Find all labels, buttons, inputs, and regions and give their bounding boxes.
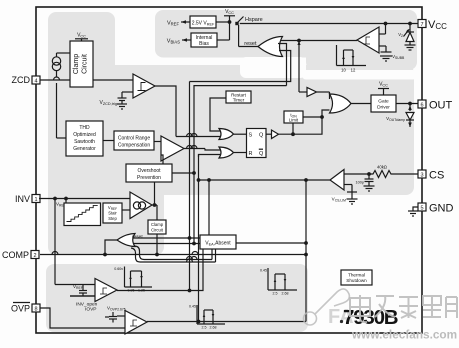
wire ZCD comparator output bbox=[155, 86, 176, 137]
pre-driver buffer bbox=[307, 88, 330, 100]
wire OVP comparator output bbox=[147, 320, 306, 323]
wire COMP pin row bbox=[40, 252, 306, 255]
wire INV to error amp bbox=[39, 197, 130, 200]
watermark magnifier circle bbox=[304, 289, 350, 325]
INV open comparator bbox=[55, 279, 117, 302]
svg-text:Thermal: Thermal bbox=[348, 273, 365, 278]
wire fault bus A to v4 bbox=[134, 246, 212, 260]
svg-text:IOVP: IOVP bbox=[85, 307, 96, 313]
wire reset gate input A bbox=[278, 44, 287, 86]
shaded region top-left strip bbox=[48, 12, 115, 82]
capacitor on CS filter bbox=[356, 174, 375, 191]
UVLO comparator bbox=[357, 27, 379, 53]
svg-text:4: 4 bbox=[34, 79, 37, 85]
restart timer block bbox=[226, 91, 251, 103]
OR gate 2 (reset) bbox=[219, 147, 247, 158]
wire ZCD to comparator bbox=[40, 79, 70, 81]
ton limit block bbox=[284, 111, 323, 123]
svg-text:VREF: VREF bbox=[167, 21, 179, 27]
wire Vcc to UVLO input bbox=[379, 24, 386, 35]
svg-text:Limit: Limit bbox=[289, 118, 299, 123]
CS comparator bbox=[330, 170, 344, 191]
svg-text:GND: GND bbox=[429, 203, 454, 215]
clamp circuit block bbox=[70, 41, 93, 87]
hysteresis graphic G3 bbox=[189, 305, 225, 330]
svg-text:40kΩ: 40kΩ bbox=[377, 165, 387, 170]
Vzcd,trig reference bbox=[100, 92, 133, 109]
pin ZCD bbox=[12, 75, 41, 85]
svg-text:1: 1 bbox=[34, 197, 37, 203]
driver OR gate bbox=[330, 94, 372, 113]
svg-text:VBIAS: VBIAS bbox=[167, 39, 180, 45]
shaded region INV cluster bbox=[48, 65, 164, 255]
svg-text:Generator: Generator bbox=[73, 146, 96, 152]
flip-flop output buffer bbox=[266, 130, 279, 139]
svg-text:OUT: OUT bbox=[429, 100, 453, 112]
svg-text:COMP: COMP bbox=[2, 250, 29, 260]
svg-text:2.68: 2.68 bbox=[282, 292, 289, 296]
Vref stair step block bbox=[103, 203, 130, 223]
ZCD comparator U-zcd bbox=[133, 74, 155, 98]
wire switch to Vcc pin bbox=[240, 22, 418, 25]
Vref reference for INV comparator bbox=[70, 284, 95, 296]
svg-text:Sawtooth: Sawtooth bbox=[74, 139, 95, 145]
Vcc rail above gate driver bbox=[378, 82, 389, 96]
watermark chinese characters bbox=[350, 295, 457, 322]
svg-text:Q: Q bbox=[259, 133, 264, 139]
comp clamp circuit block bbox=[148, 220, 166, 234]
pin OVP bbox=[11, 303, 40, 314]
wire UVLO output to reset gate bbox=[281, 39, 357, 42]
svg-text:VEA,Absent: VEA,Absent bbox=[205, 241, 231, 247]
zener Vout clamp bbox=[386, 104, 414, 128]
white gap right of notch bbox=[302, 70, 417, 80]
svg-text:reset: reset bbox=[132, 234, 143, 240]
svg-text:www.elecfans.com: www.elecfans.com bbox=[351, 328, 457, 342]
wire INV to stair step box bbox=[65, 199, 67, 204]
svg-text:2.5: 2.5 bbox=[273, 292, 278, 296]
svg-text:2.68: 2.68 bbox=[210, 326, 217, 330]
Vref output arrow bbox=[167, 20, 190, 26]
wire error amp output bbox=[152, 182, 158, 256]
shaded region top panel bbox=[155, 10, 417, 58]
VEA absent block bbox=[200, 235, 236, 249]
svg-text:Shutdown: Shutdown bbox=[346, 278, 367, 283]
svg-text:Timer: Timer bbox=[233, 98, 245, 103]
error amplifier (OTA) bbox=[130, 192, 152, 219]
internal bias block bbox=[191, 33, 217, 47]
stair step waveform box bbox=[64, 203, 101, 226]
svg-text:0.45: 0.45 bbox=[260, 269, 267, 273]
svg-text:VCS,LIM: VCS,LIM bbox=[332, 197, 346, 203]
svg-text:VSUBB: VSUBB bbox=[392, 54, 405, 60]
hysteresis graphic G1 bbox=[114, 267, 152, 293]
svg-text:THD: THD bbox=[79, 125, 90, 131]
gate driver block bbox=[371, 95, 396, 112]
thermal shutdown block bbox=[341, 270, 372, 285]
svg-text:Q: Q bbox=[259, 151, 264, 157]
svg-text:Circuit: Circuit bbox=[82, 54, 89, 74]
svg-text:OVP: OVP bbox=[11, 304, 30, 314]
svg-text:2.5: 2.5 bbox=[202, 326, 207, 330]
svg-text:ZCD: ZCD bbox=[12, 75, 31, 85]
wire OVP pin to comparator bbox=[40, 308, 125, 328]
svg-text:8: 8 bbox=[34, 307, 37, 313]
wire CS pin to comparator bbox=[344, 173, 370, 176]
stair reset OR gate bbox=[104, 234, 144, 256]
wire Q to ton limit and driver gate bbox=[279, 110, 330, 136]
wire VEA absent to riser bbox=[236, 242, 307, 245]
current source on ZCD clamp branch bbox=[52, 53, 70, 138]
SR flip-flop bbox=[247, 129, 267, 158]
resistor on CS input bbox=[369, 165, 418, 178]
svg-text:5: 5 bbox=[420, 206, 423, 212]
wire gate driver to OUT pin bbox=[396, 102, 418, 105]
wire CRC to PWM comparator bbox=[154, 141, 161, 143]
wire overshoot prevention to bus bbox=[172, 172, 195, 175]
wire reset gate input B bbox=[190, 51, 291, 82]
INV open labels bbox=[76, 302, 98, 313]
reset OR gate bbox=[239, 37, 283, 57]
pin GND bbox=[418, 203, 454, 215]
Vcc rail above clamp circuit bbox=[75, 33, 88, 42]
svg-text:0.60v: 0.60v bbox=[114, 267, 123, 271]
svg-text:6: 6 bbox=[420, 103, 423, 109]
svg-text:7: 7 bbox=[420, 22, 423, 28]
pin COMP bbox=[2, 250, 39, 260]
svg-text:Stair: Stair bbox=[108, 211, 117, 216]
pin CS bbox=[418, 170, 444, 182]
bus v4 bbox=[198, 155, 200, 322]
PWM comparator bbox=[161, 136, 184, 161]
svg-text:R: R bbox=[249, 151, 253, 157]
svg-text:Step: Step bbox=[108, 216, 117, 221]
svg-text:12: 12 bbox=[351, 68, 356, 73]
svg-text:100p: 100p bbox=[356, 181, 364, 185]
svg-text:VOVP2.675: VOVP2.675 bbox=[107, 306, 126, 312]
pin VCC bbox=[418, 19, 447, 31]
svg-text:VOUTclamp: VOUTclamp bbox=[386, 116, 405, 122]
wire pre-driver riser bbox=[297, 41, 307, 93]
pin INV bbox=[15, 194, 40, 204]
Vovp reference bbox=[105, 306, 126, 323]
switch Hspare bbox=[235, 17, 262, 47]
Vcs,lim reference bbox=[332, 185, 358, 205]
wire ZCD signal to OR1 bbox=[176, 134, 220, 137]
Vbias output arrow bbox=[167, 38, 191, 44]
UVLO hysteresis graphic bbox=[337, 45, 367, 73]
THD optimized sawtooth generator block bbox=[66, 121, 103, 156]
bus v2 bbox=[193, 86, 287, 245]
svg-text:10: 10 bbox=[341, 68, 346, 73]
shaded region middle band bbox=[48, 65, 414, 195]
wire CS comparator output to bus bbox=[197, 179, 330, 235]
IC outer frame bbox=[36, 7, 422, 333]
bus v1 bbox=[188, 82, 191, 292]
svg-text:Overshoot: Overshoot bbox=[137, 168, 161, 174]
svg-text:Circuit: Circuit bbox=[151, 228, 164, 233]
svg-text:Driver: Driver bbox=[377, 105, 390, 111]
svg-text:2: 2 bbox=[33, 253, 36, 259]
svg-text:CS: CS bbox=[429, 170, 444, 182]
Vcc rail feeding reference blocks bbox=[216, 9, 235, 40]
svg-text:Hspare: Hspare bbox=[245, 17, 263, 23]
svg-text:Clamp: Clamp bbox=[151, 222, 164, 227]
svg-text:Bias: Bias bbox=[199, 41, 209, 47]
riser to CS comparator output bbox=[305, 180, 308, 322]
svg-text:VZ: VZ bbox=[398, 32, 403, 38]
svg-text:Clamp: Clamp bbox=[73, 54, 80, 74]
hysteresis graphic G2 bbox=[260, 268, 297, 296]
svg-text:S: S bbox=[249, 133, 253, 139]
wires stair reset gate inputs bbox=[133, 237, 200, 244]
wire overshoot prevention to PWM comparator bbox=[161, 155, 163, 164]
wire INV sense down bbox=[54, 199, 56, 285]
wire bus v4 to OR2 bbox=[199, 155, 221, 158]
Vsubb reference at UVLO bbox=[379, 46, 405, 61]
svg-text:Prevention: Prevention bbox=[137, 175, 161, 181]
overshoot prevention block bbox=[126, 164, 172, 182]
svg-text:Control Range: Control Range bbox=[118, 136, 150, 142]
wire fault bus B to v3 bbox=[131, 248, 216, 262]
wire INV open comparator output bbox=[117, 249, 203, 291]
wire clamp branch down to THD block bbox=[57, 137, 67, 139]
wire restart timer to bus bbox=[210, 98, 226, 131]
svg-text:INV: INV bbox=[15, 194, 30, 204]
OVP comparator bbox=[117, 311, 147, 335]
svg-text:Optimized: Optimized bbox=[73, 132, 96, 138]
wire THD to control range compensation bbox=[103, 140, 114, 142]
svg-text:Gate: Gate bbox=[378, 99, 389, 105]
svg-text:Compensation: Compensation bbox=[118, 143, 150, 149]
zener clamp on Vcc bbox=[398, 24, 415, 51]
shaded region top panel right lobe bbox=[306, 10, 417, 70]
2.5V Vref block bbox=[190, 16, 216, 28]
svg-text:0.45: 0.45 bbox=[189, 305, 196, 309]
OR gate 1 (set) bbox=[219, 129, 247, 140]
shaded notch under reset gate bbox=[240, 57, 306, 78]
svg-text:3: 3 bbox=[420, 173, 423, 179]
wire PWM comparator output to OR2 bbox=[184, 146, 220, 151]
ground at GND pin bbox=[408, 207, 418, 216]
control range compensation block bbox=[114, 131, 154, 150]
pin OUT bbox=[418, 100, 453, 112]
shaded region bottom panel bbox=[46, 264, 308, 332]
